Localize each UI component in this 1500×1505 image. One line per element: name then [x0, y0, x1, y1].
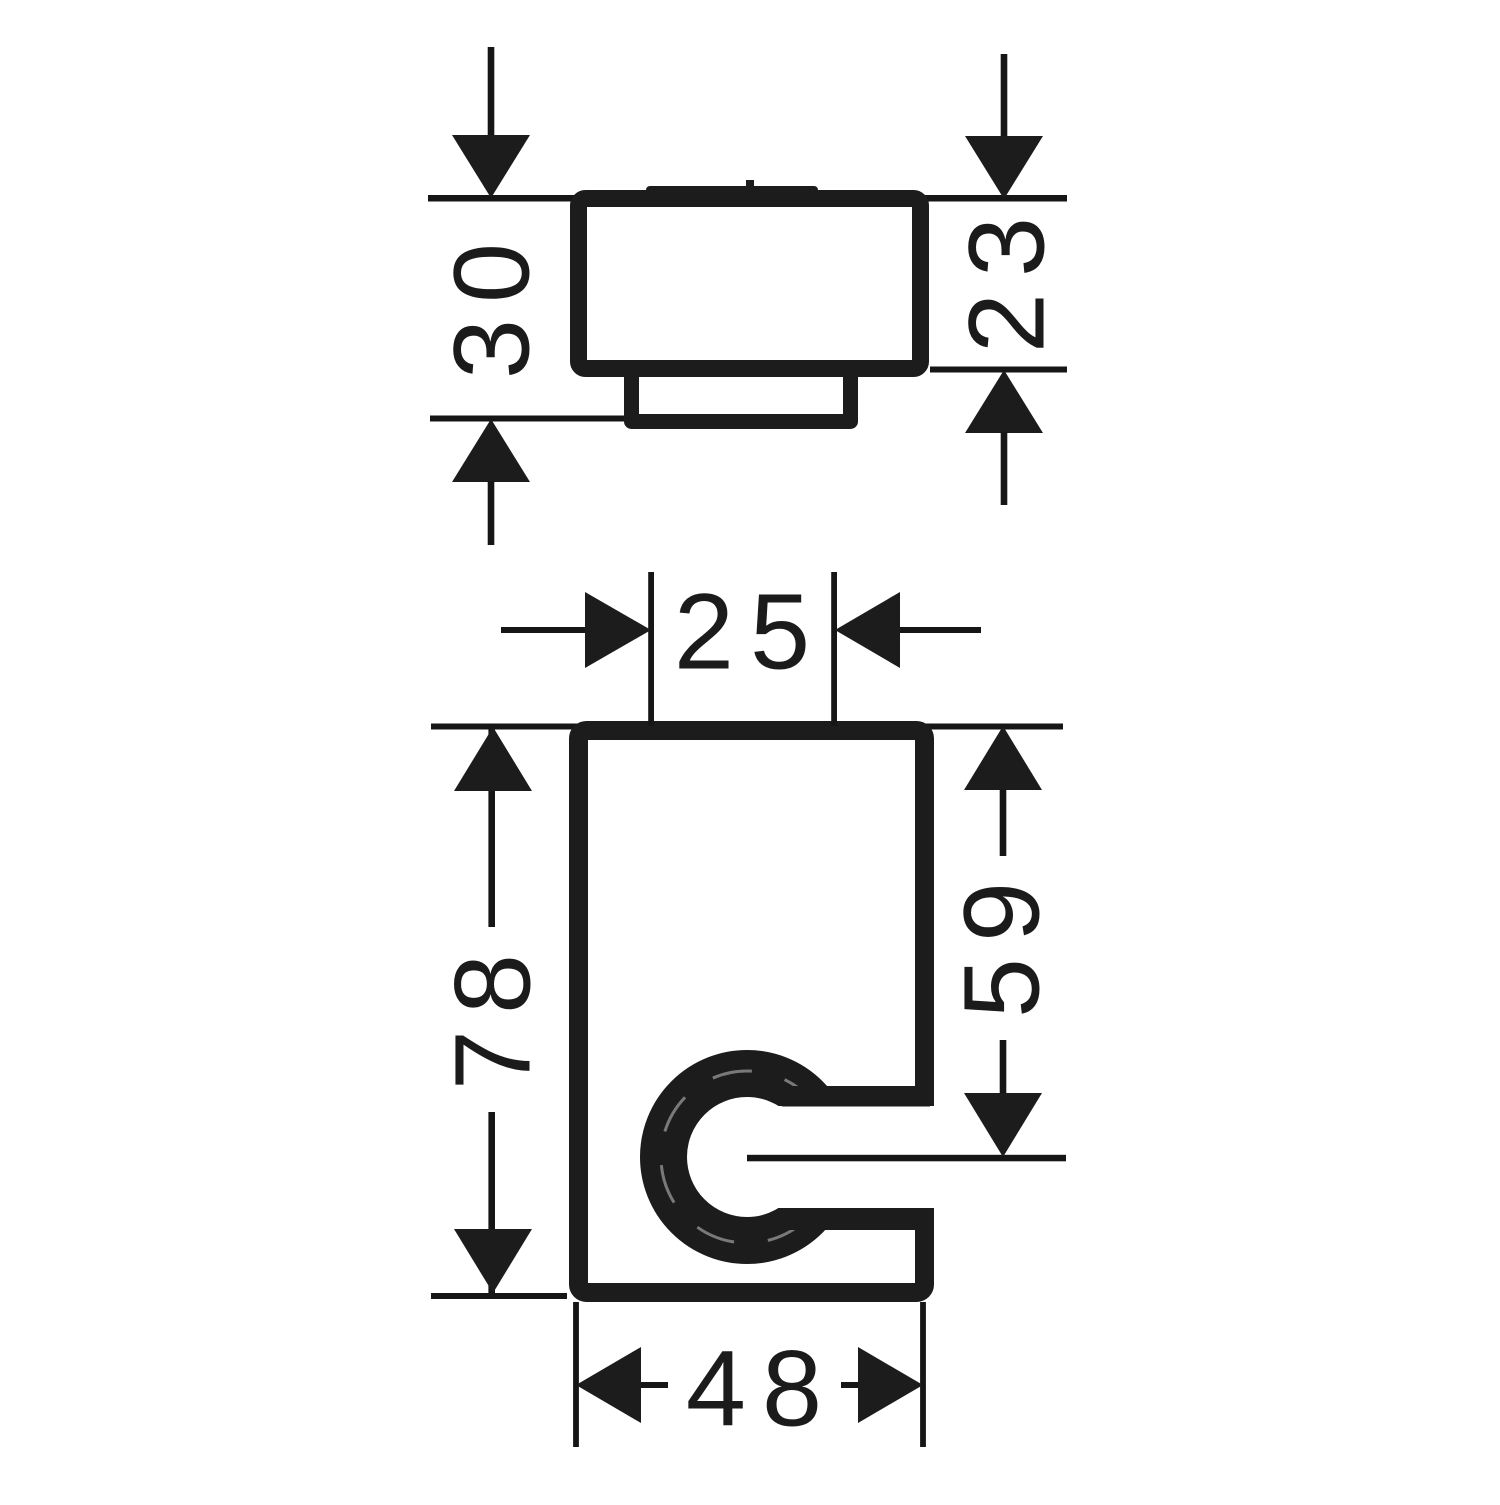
dimension line 78 upper segment — [488, 727, 495, 927]
dimension line 59 upper segment — [1000, 790, 1007, 856]
extension line 25 left — [648, 572, 654, 726]
arrow 30 bottom (up) — [452, 419, 530, 482]
ring opening cut — [747, 1106, 947, 1208]
tick on top edge (top view) — [746, 180, 754, 190]
svg-text:78: 78 — [432, 938, 553, 1090]
holder top bar — [782, 1086, 930, 1107]
dimension line 78 lower segment — [488, 1112, 495, 1293]
leader stub 48 left — [641, 1382, 668, 1388]
svg-text:23: 23 — [946, 201, 1067, 353]
arrow 30 top (down) — [452, 135, 530, 198]
leader line top-left (30) — [488, 47, 495, 136]
leader line 25 right — [900, 627, 981, 633]
leader line bottom-left (30) — [488, 481, 495, 545]
svg-text:48: 48 — [686, 1328, 838, 1449]
extension line front-top (78/59 upper reference) — [431, 724, 1063, 730]
arrow 23 bottom (up) — [965, 370, 1043, 433]
right wall slot opening (white gap) — [900, 1106, 950, 1208]
dimension line 59 lower segment — [1000, 1040, 1007, 1094]
extension line front-bottom (78 lower reference) — [431, 1293, 567, 1299]
extension line 48 left — [573, 1302, 579, 1447]
leader line top-right (23) — [1001, 54, 1008, 137]
arrow 78 top (up) — [454, 727, 532, 791]
leader stub 48 right — [841, 1382, 859, 1388]
extension line bottom-left (30 lower reference) — [430, 416, 624, 422]
extension line bottom-right (23 lower reference) — [930, 367, 1067, 373]
ring groove highlight — [661, 1071, 833, 1243]
body outline (front view) — [579, 731, 925, 1293]
arrow 23 top (down) — [965, 136, 1043, 199]
svg-text:30: 30 — [431, 227, 552, 379]
leader line 25 left — [501, 627, 585, 633]
extension line top (30/23 upper reference) — [428, 195, 1067, 202]
holder bottom bar — [782, 1208, 930, 1230]
svg-text:59: 59 — [941, 866, 1062, 1018]
arrow 78 bottom (down) — [454, 1229, 532, 1293]
C-holder ring — [664, 1074, 831, 1241]
ridge on top edge (top view) — [646, 186, 818, 200]
extension line 48 right — [920, 1302, 926, 1447]
arrow 59 top (up) — [964, 726, 1042, 790]
arrow 25 right (left-pointing) — [835, 592, 900, 668]
extension line 25 right — [831, 572, 837, 726]
svg-text:25: 25 — [674, 571, 826, 692]
center line (59 lower reference) — [747, 1155, 1066, 1162]
arrow 59 bottom (down) — [964, 1093, 1042, 1157]
lip (top view bottom tray) — [632, 360, 851, 422]
arrow 25 left (right-pointing) — [585, 592, 651, 668]
body outline (top view) — [579, 199, 921, 369]
leader line bottom-right (23) — [1001, 432, 1008, 505]
arrow 48 left (left-pointing) — [576, 1347, 641, 1423]
arrow 48 right (right-pointing) — [858, 1347, 923, 1423]
